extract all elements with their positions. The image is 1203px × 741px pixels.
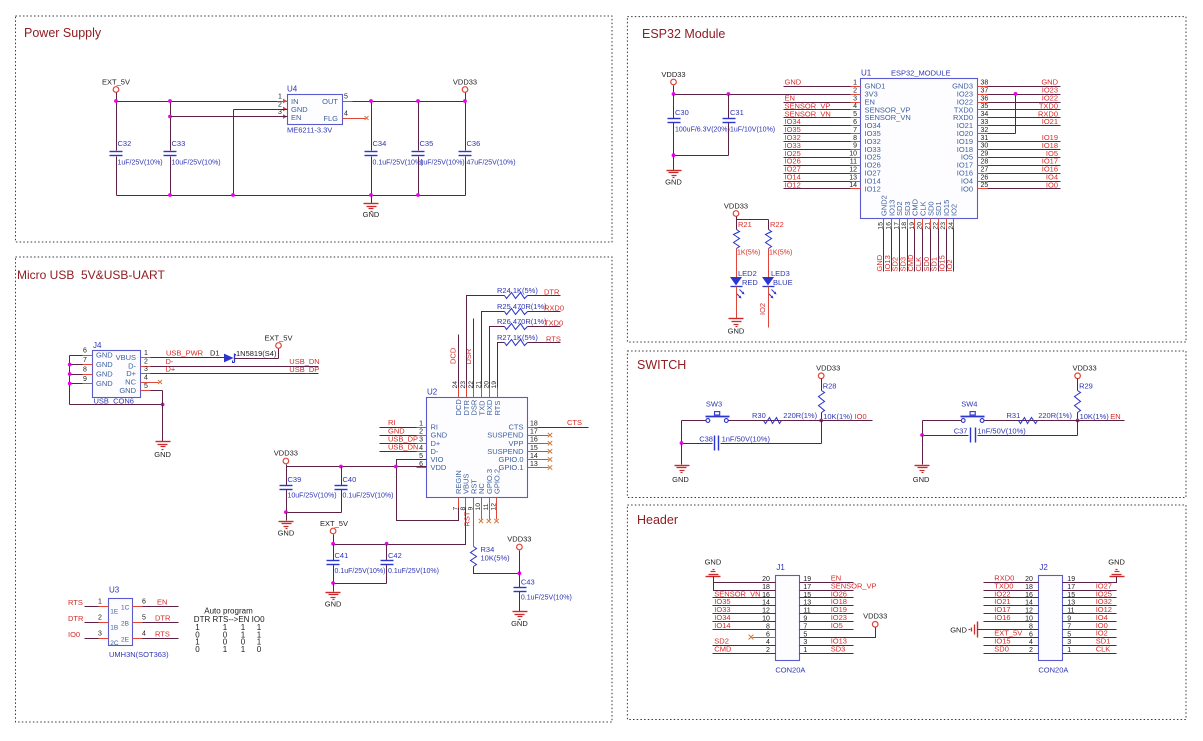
svg-text:14: 14 — [530, 453, 538, 460]
svg-text:0.1uF/25V(10%): 0.1uF/25V(10%) — [521, 595, 572, 602]
svg-text:C33: C33 — [172, 139, 186, 148]
resistor R22 — [766, 220, 793, 257]
net label RTS — [546, 335, 561, 344]
auto program truth table — [194, 607, 265, 654]
power port VDD33 led — [724, 202, 748, 220]
J1 pin 6 no-connect — [749, 635, 776, 640]
svg-text:GND: GND — [913, 475, 930, 484]
U4 pin 3 EN — [278, 109, 288, 119]
wire LED2 to ground — [736, 287, 738, 319]
wire C39 C40 ground bus — [284, 510, 342, 520]
IC U1 ESP32_MODULE — [861, 69, 978, 219]
svg-text:USB_DP: USB_DP — [289, 365, 319, 374]
wire R22 to LED3 — [768, 249, 770, 278]
svg-text:2: 2 — [1029, 647, 1033, 654]
svg-text:EXT_5V: EXT_5V — [102, 78, 130, 87]
wire D1 to EXT_5V — [235, 349, 279, 359]
svg-text:GPIO.1: GPIO.1 — [498, 463, 523, 472]
svg-text:1: 1 — [98, 598, 102, 605]
capacitor C41 — [327, 551, 386, 575]
junction dots EXT_5V row — [331, 542, 388, 546]
resistor Rsw3h — [752, 411, 818, 424]
svg-text:GND: GND — [511, 619, 528, 628]
power port EXT_5V usb — [265, 334, 293, 349]
svg-text:GND: GND — [154, 450, 171, 459]
svg-text:R21: R21 — [738, 220, 752, 229]
net labels U1 right — [1038, 78, 1059, 190]
resistor R26 — [497, 317, 547, 330]
svg-text:5: 5 — [419, 453, 423, 460]
svg-text:20: 20 — [917, 222, 924, 230]
net label IO0 — [855, 412, 867, 421]
svg-text:ESP32 Module: ESP32 Module — [642, 27, 725, 41]
junction dots vdd rail esp — [672, 92, 731, 96]
LED LED2 RED — [730, 269, 758, 299]
U2 right pin names — [487, 421, 538, 473]
wire cap row sw4 — [920, 421, 1077, 437]
svg-text:IO0: IO0 — [1046, 180, 1058, 189]
wires and net labels J1 right — [800, 574, 877, 654]
svg-text:DTR: DTR — [68, 614, 84, 623]
net label DCD — [449, 347, 458, 364]
svg-text:R24 1K(5%): R24 1K(5%) — [497, 286, 538, 295]
wire U4 GND pin2 to bottom bus — [234, 109, 288, 111]
net label IO0 u3 — [68, 630, 80, 639]
capacitor C30 — [668, 108, 730, 134]
net label EN — [1110, 412, 1120, 421]
wire LED3 IO2 — [768, 287, 770, 328]
U3 pin 4 — [133, 630, 179, 638]
svg-text:D+: D+ — [166, 365, 176, 374]
svg-text:RTS: RTS — [493, 401, 502, 416]
svg-text:220R(1%): 220R(1%) — [1038, 411, 1072, 420]
svg-text:RTS: RTS — [155, 629, 170, 638]
svg-text:1: 1 — [1067, 647, 1071, 654]
svg-text:10K(5%): 10K(5%) — [481, 554, 511, 563]
wire C41 branch — [333, 545, 335, 584]
svg-text:33: 33 — [981, 119, 989, 126]
section frame SWITCH — [627, 351, 1186, 498]
ground power supply — [363, 196, 380, 220]
net label USB_PWR — [166, 349, 204, 358]
svg-text:2B: 2B — [121, 621, 129, 628]
svg-text:VDD33: VDD33 — [453, 78, 477, 87]
svg-text:8: 8 — [83, 367, 87, 374]
wire J1 gnd pins 20 18 — [714, 577, 776, 591]
wire EXT_5V top bus — [117, 102, 278, 196]
wire C41 C42 ground bus — [331, 581, 386, 591]
resistor R34 — [471, 545, 511, 567]
svg-text:1nF/50V(10%): 1nF/50V(10%) — [722, 434, 771, 443]
svg-text:C36: C36 — [467, 139, 481, 148]
svg-text:R31: R31 — [1007, 411, 1021, 420]
svg-text:1uF/25V(10%): 1uF/25V(10%) — [420, 160, 465, 167]
wires and net labels J2 left — [984, 574, 1039, 654]
svg-text:220R(1%): 220R(1%) — [783, 411, 817, 420]
wire J2 pin8 gnd — [978, 629, 1039, 631]
svg-text:2: 2 — [278, 102, 282, 109]
svg-text:CON20A: CON20A — [775, 666, 805, 675]
wire USB_DP u2 — [380, 443, 417, 445]
wire C31 branch — [728, 95, 730, 156]
U2 NC GPIO stubs no-connect — [479, 508, 499, 524]
svg-text:IO12: IO12 — [865, 184, 881, 193]
svg-text:0: 0 — [257, 645, 262, 654]
ground sw4 — [913, 466, 930, 485]
svg-text:1: 1 — [241, 645, 246, 654]
power port EXT_5V — [102, 78, 130, 102]
wires and net labels J1 left — [713, 589, 776, 653]
wire VDD33 output bus — [353, 93, 466, 196]
U4 pin 1 IN — [278, 94, 288, 104]
resistor R27 — [497, 333, 538, 346]
svg-text:6: 6 — [853, 119, 857, 126]
wire USB_DN u2 — [380, 451, 417, 453]
svg-text:18: 18 — [1025, 584, 1033, 591]
svg-text:GND: GND — [96, 370, 113, 379]
net label D- — [166, 357, 174, 366]
svg-text:U3: U3 — [109, 586, 120, 595]
wire U4 EN pin3 to EXT_5V — [171, 116, 288, 118]
net label DTR — [544, 288, 560, 297]
svg-text:10K(1%): 10K(1%) — [1080, 412, 1110, 421]
U1 left pins 1-14 — [849, 80, 911, 194]
svg-text:47uF/25V(10%): 47uF/25V(10%) — [467, 160, 516, 167]
svg-text:21: 21 — [925, 222, 932, 230]
power port VDD33 j1 — [863, 612, 887, 628]
connector J4 USB_CON6 — [93, 341, 141, 406]
svg-text:GND: GND — [96, 379, 113, 388]
connector J1 CON20A — [775, 563, 805, 675]
svg-text:GND: GND — [1108, 558, 1125, 567]
svg-text:3: 3 — [144, 366, 148, 373]
svg-text:C30: C30 — [675, 108, 689, 117]
wire J1 pin5 to VDD33 — [800, 628, 876, 638]
IC U2 USB-UART — [427, 388, 528, 498]
section title Header — [637, 513, 678, 527]
power port VDD33 esp — [661, 70, 685, 95]
svg-text:FLG: FLG — [323, 114, 338, 123]
capacitor C35 — [412, 139, 465, 167]
net label DTR u3 — [68, 614, 84, 623]
svg-text:R22: R22 — [770, 220, 784, 229]
net label GND u2 — [388, 426, 405, 435]
wire USB_PWR — [151, 357, 225, 359]
U3 pin 2 — [85, 614, 109, 622]
svg-text:EXT_5V: EXT_5V — [265, 334, 293, 343]
svg-text:0.1uF/25V(10%): 0.1uF/25V(10%) — [373, 160, 424, 167]
svg-text:17: 17 — [530, 429, 538, 436]
U3 pin 6 — [133, 598, 179, 606]
svg-text:EN: EN — [291, 113, 301, 122]
J4 pin 8 — [83, 367, 93, 375]
wire EXT_5V row — [334, 544, 466, 546]
svg-text:IO14: IO14 — [714, 621, 730, 630]
svg-text:11: 11 — [483, 503, 490, 510]
svg-text:R25 470R(1%): R25 470R(1%) — [497, 302, 547, 311]
net label RI — [388, 418, 396, 427]
svg-text:1uF/25V(10%): 1uF/25V(10%) — [118, 160, 163, 167]
capacitor C33 — [164, 139, 221, 167]
svg-text:0.1uF/25V(10%): 0.1uF/25V(10%) — [388, 568, 439, 575]
U4 pin 4 FLG no-connect — [343, 111, 369, 121]
wire R28 to row — [819, 413, 823, 423]
net label TXD0 — [544, 319, 563, 328]
svg-text:R28: R28 — [823, 382, 837, 391]
switch SWsw4 — [961, 400, 985, 423]
svg-text:1C: 1C — [121, 605, 130, 612]
svg-text:Power Supply: Power Supply — [24, 26, 102, 40]
svg-text:23: 23 — [940, 222, 947, 230]
J4 pin 4 NC — [141, 375, 163, 385]
capacitor C39 — [280, 475, 337, 500]
section frame Header — [627, 505, 1186, 720]
svg-text:35: 35 — [981, 103, 989, 110]
J4 pin 5 GND — [141, 383, 151, 391]
section title Power Supply — [24, 26, 102, 40]
svg-text:23: 23 — [460, 381, 467, 389]
svg-text:4: 4 — [419, 445, 423, 452]
ground C41 — [325, 593, 342, 609]
net labels U1 bottom — [875, 254, 954, 272]
svg-text:2: 2 — [766, 647, 770, 654]
svg-text:Micro USB 5V&USB-UART: Micro USB 5V&USB-UART — [17, 268, 165, 282]
section title Micro USB 5V&USB-UART — [17, 268, 165, 282]
power port VDD33 — [453, 78, 477, 93]
net label CTS — [567, 418, 582, 427]
svg-text:38: 38 — [981, 80, 989, 87]
svg-text:IO2: IO2 — [945, 259, 954, 271]
net label EN u3 — [157, 597, 167, 606]
wires U1 right nets — [988, 87, 1061, 189]
wire R25 to RXD0 label — [528, 311, 561, 313]
svg-text:2E: 2E — [121, 637, 130, 644]
svg-text:22: 22 — [932, 222, 939, 230]
resistor R21 — [734, 220, 761, 257]
wire RXD to R26 — [490, 327, 505, 388]
connector J2 CON20A — [1038, 563, 1068, 675]
svg-text:32: 32 — [981, 127, 989, 134]
svg-text:26: 26 — [981, 174, 989, 181]
svg-text:VDD33: VDD33 — [274, 449, 298, 458]
svg-text:2C: 2C — [110, 640, 119, 647]
wire RTS to R27 — [498, 343, 505, 388]
wire VBUS to EXT_5V row — [387, 508, 466, 545]
svg-text:0.1uF/25V(10%): 0.1uF/25V(10%) — [335, 568, 386, 575]
svg-text:UMH3N(SOT363): UMH3N(SOT363) — [109, 650, 169, 659]
svg-text:5: 5 — [142, 614, 146, 621]
junction dots VDD rail — [339, 465, 398, 469]
wire J2 pin19 to gnd — [1063, 577, 1117, 583]
svg-text:IO21: IO21 — [1042, 117, 1058, 126]
svg-text:J1: J1 — [776, 563, 785, 572]
svg-text:LED2: LED2 — [738, 269, 757, 278]
svg-text:EN: EN — [157, 597, 167, 606]
section frame Power Supply — [16, 16, 613, 242]
U1 right pins 38-25 — [952, 80, 988, 194]
ground sw3 — [672, 466, 689, 485]
section frame Micro USB 5V&USB-UART — [16, 257, 613, 722]
svg-text:0: 0 — [195, 645, 200, 654]
svg-text:IO0: IO0 — [855, 412, 867, 421]
svg-text:31: 31 — [981, 135, 989, 142]
svg-text:RTS: RTS — [68, 598, 83, 607]
svg-text:12: 12 — [849, 166, 857, 173]
wire R34 to VDD33 — [474, 567, 522, 576]
net label USB_DN — [289, 357, 319, 366]
capacitor C31 — [723, 108, 776, 134]
J4 pin 9 — [83, 376, 93, 384]
wire RI — [380, 427, 417, 429]
svg-text:C41: C41 — [335, 551, 349, 560]
U2 left pins 1-6 — [417, 421, 448, 473]
svg-text:C37: C37 — [954, 426, 968, 435]
svg-text:9: 9 — [83, 376, 87, 383]
svg-text:27: 27 — [981, 166, 989, 173]
svg-text:5: 5 — [144, 383, 148, 390]
U3 pin 1 — [85, 598, 109, 606]
svg-text:19: 19 — [909, 222, 916, 230]
svg-text:10uF/25V(10%): 10uF/25V(10%) — [288, 493, 337, 500]
svg-text:IO5: IO5 — [831, 621, 843, 630]
svg-text:OUT: OUT — [322, 97, 338, 106]
power port VDD33 sw3 — [816, 364, 840, 391]
resistor R28 — [819, 382, 853, 422]
wire R26 to TXD0 label — [528, 326, 561, 328]
J4 pin 7 — [83, 357, 93, 365]
net label DSR — [464, 348, 473, 364]
svg-text:RST: RST — [463, 511, 472, 526]
svg-text:8: 8 — [853, 135, 857, 142]
ground esp caps — [665, 171, 682, 187]
U3 pin 3 — [85, 630, 109, 638]
svg-text:J2: J2 — [1039, 563, 1048, 572]
svg-text:ME6211-3.3V: ME6211-3.3V — [287, 126, 332, 135]
power port VDD33 r34 — [507, 535, 531, 588]
ground J4 — [154, 442, 171, 460]
U1 bottom pins 15-24 — [878, 195, 959, 229]
wire R29 to row — [1076, 413, 1080, 423]
net label IO2 led — [758, 303, 767, 315]
svg-text:1K(5%): 1K(5%) — [769, 250, 792, 257]
svg-text:VDD33: VDD33 — [661, 70, 685, 79]
wire led tee — [737, 220, 769, 230]
svg-text:3: 3 — [98, 630, 102, 637]
svg-text:D1: D1 — [210, 349, 220, 358]
svg-text:11: 11 — [850, 159, 857, 166]
capacitor C36 — [459, 139, 516, 167]
svg-text:13: 13 — [849, 174, 857, 181]
ground J1 top — [705, 558, 722, 577]
power port EXT_5V u2 — [320, 519, 348, 545]
svg-text:2: 2 — [98, 614, 102, 621]
net label RXD0 — [544, 304, 564, 313]
svg-text:RXD0: RXD0 — [544, 304, 564, 313]
svg-text:GND: GND — [665, 178, 682, 187]
transistor U3 UMH3N — [109, 586, 170, 660]
svg-text:VDD33: VDD33 — [1073, 364, 1097, 373]
svg-text:4: 4 — [344, 111, 348, 118]
svg-text:5: 5 — [853, 111, 857, 118]
wire DSR — [473, 319, 475, 388]
svg-text:4: 4 — [144, 375, 148, 382]
svg-text:1B: 1B — [110, 625, 118, 632]
svg-text:15: 15 — [530, 445, 538, 452]
ground J2 top — [1108, 558, 1125, 577]
svg-text:15: 15 — [878, 222, 885, 230]
svg-text:17: 17 — [803, 584, 811, 591]
J4 pin 6 — [83, 348, 93, 356]
junction dots ground bus — [168, 193, 420, 197]
wire switch row sw4 — [923, 420, 1125, 422]
svg-text:RED: RED — [742, 278, 758, 287]
wire R24 to DTR label — [528, 295, 561, 297]
svg-text:IO12: IO12 — [785, 180, 801, 189]
svg-text:1E: 1E — [110, 609, 119, 616]
svg-text:GND: GND — [278, 529, 295, 538]
section title SWITCH — [637, 358, 686, 372]
svg-text:GND: GND — [119, 386, 136, 395]
svg-text:2: 2 — [853, 87, 857, 94]
ground LED2 — [728, 319, 745, 336]
svg-text:CLK: CLK — [1096, 644, 1111, 653]
resistor R25 — [497, 302, 547, 315]
wire USB_DP — [151, 373, 319, 375]
svg-text:1: 1 — [144, 350, 148, 357]
J4 pin 1 VBUS — [141, 350, 151, 358]
capacitor C40 — [335, 475, 394, 500]
svg-text:C35: C35 — [420, 139, 434, 148]
svg-text:18: 18 — [530, 421, 538, 428]
U2 bottom pins 7-12 — [452, 469, 501, 511]
wires and net labels J2 right — [1063, 581, 1117, 653]
svg-text:6: 6 — [83, 348, 87, 355]
svg-text:VDD: VDD — [431, 463, 447, 472]
wire ground bus — [117, 195, 466, 197]
net label USB_DP — [289, 365, 319, 374]
U2 top pins 24-19 — [452, 381, 502, 416]
resistor Rsw4h — [1007, 411, 1073, 424]
svg-text:R26 470R(1%): R26 470R(1%) — [497, 317, 547, 326]
ground C43 — [511, 612, 528, 629]
svg-text:6: 6 — [142, 598, 146, 605]
diode D1 1N5819 — [210, 349, 277, 363]
svg-text:CMD: CMD — [714, 644, 732, 653]
svg-text:GND: GND — [672, 475, 689, 484]
svg-text:C42: C42 — [388, 551, 402, 560]
svg-text:GND: GND — [728, 327, 745, 336]
svg-text:VDD33: VDD33 — [863, 612, 887, 621]
svg-text:100uF/6.3V(20%): 100uF/6.3V(20%) — [675, 127, 730, 134]
wire USB_DN — [151, 366, 319, 368]
svg-text:EXT_5V: EXT_5V — [320, 519, 348, 528]
resistor R29 — [1075, 382, 1110, 422]
wire J4 pin5 to ground — [151, 391, 163, 442]
wire C43 to ground — [519, 592, 521, 612]
section frame ESP32 Module — [627, 17, 1186, 342]
svg-text:7: 7 — [853, 127, 857, 134]
net label RTS u3 right — [155, 629, 170, 638]
svg-text:9: 9 — [853, 143, 857, 150]
U3 pin 5 — [133, 614, 179, 622]
U4 pin 2 GND — [278, 102, 288, 112]
svg-text:1N5819(S4): 1N5819(S4) — [236, 349, 277, 358]
svg-text:1: 1 — [419, 421, 423, 428]
svg-text:GND: GND — [96, 351, 113, 360]
LED LED3 BLUE — [762, 269, 793, 299]
J2 pin numbers — [1025, 576, 1075, 654]
svg-text:18: 18 — [762, 584, 770, 591]
